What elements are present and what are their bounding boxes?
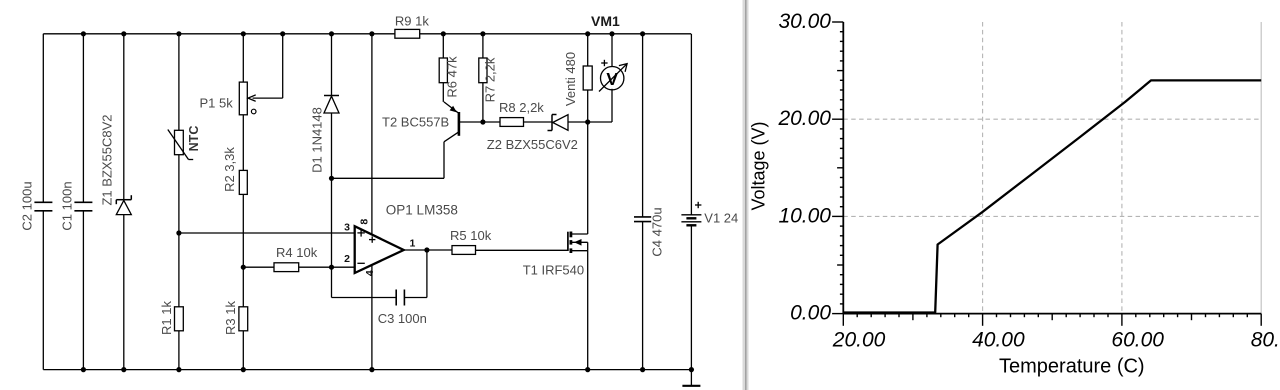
capacitor C4 (634, 217, 651, 222)
wire top rail right segment after R9 (420, 33, 691, 35)
label C4 470u (650, 207, 665, 256)
wire op-amp V+ supply pin 8 (371, 34, 373, 238)
wire bottom ground rail (43, 369, 691, 371)
wire T1 source to ground (587, 251, 589, 370)
label R1 1k (159, 301, 174, 335)
wire P1-R2-R3 vertical branch (242, 34, 244, 370)
junction op-amp supply top rail (369, 31, 374, 36)
op-amp minus input mark (357, 262, 364, 264)
wire top V+ rail left segment (43, 33, 395, 35)
svg-text:Voltage (V): Voltage (V) (749, 121, 769, 210)
wire base to R8 (483, 121, 500, 123)
potentiometer P1 body (239, 82, 247, 115)
svg-text:0.00: 0.00 (790, 302, 831, 325)
capacitor C2 (34, 202, 52, 211)
svg-text:V1 24: V1 24 (704, 211, 738, 226)
chart y ticks (832, 22, 843, 314)
wire R8 to Z2 (524, 121, 553, 123)
pin number 8 (358, 219, 370, 225)
thermistor NTC (168, 130, 193, 160)
svg-text:P1 5k: P1 5k (200, 96, 234, 111)
wire R6 branch (442, 34, 444, 102)
wire R5 to T1 gate (476, 249, 568, 251)
zener diode Z1 (cathode up) (116, 195, 131, 214)
svg-text:R2 3,3k: R2 3,3k (222, 147, 237, 192)
pin number 1 (410, 238, 416, 250)
svg-text:R9 1k: R9 1k (395, 14, 429, 29)
junction op-amp supply ground (369, 367, 374, 372)
svg-text:Temperature (C): Temperature (C) (999, 356, 1145, 378)
wire NTC-R1 vertical branch (178, 34, 180, 370)
svg-text:60.00: 60.00 (1111, 329, 1164, 352)
svg-text:3: 3 (344, 221, 350, 233)
label R6 47k (445, 56, 460, 98)
svg-text:80.00: 80.00 (1251, 329, 1280, 352)
diode D1 1N4148 (cathode up) (324, 96, 339, 114)
fan resistor Venti 480 (583, 66, 592, 90)
resistor R5 (452, 246, 476, 255)
svg-text:R6 47k: R6 47k (445, 56, 460, 98)
label R5 10k (450, 228, 492, 243)
plot curve voltage vs temperature (843, 80, 1261, 312)
voltmeter VM1 (599, 64, 627, 92)
junction T2 base with R7 (480, 119, 485, 124)
wire op-amp output pin 1 (404, 249, 452, 251)
label NTC (187, 126, 201, 152)
svg-text:R8 2,2k: R8 2,2k (499, 100, 544, 115)
resistor R7 (479, 58, 487, 83)
svg-text:40.00: 40.00 (972, 329, 1025, 352)
resistor R6 (439, 58, 447, 83)
label C3 100n (378, 311, 427, 326)
wire C1 vertical branch (82, 34, 84, 370)
potentiometer P1 open terminal circle (251, 109, 256, 114)
junction C1 top (81, 31, 86, 36)
label Z1 BZX55C8V2 (100, 114, 115, 205)
wire D1 vertical branch (331, 34, 333, 267)
svg-text:R7 2,2k: R7 2,2k (483, 57, 498, 102)
junction V1 ground rail (689, 367, 694, 372)
pin number 2 (344, 253, 350, 265)
label R8 2,2k (499, 100, 544, 115)
battery V1 24 (681, 215, 701, 226)
resistor R4 (274, 263, 299, 272)
svg-text:R3 1k: R3 1k (223, 301, 238, 335)
junction D1 line with T2 collector wire (329, 176, 334, 181)
op-amp OP1 triangle (355, 226, 404, 273)
voltmeter plus mark (601, 60, 607, 66)
label P1 5k (200, 96, 234, 111)
label R4 10k (276, 245, 318, 260)
junction C4 top rail (640, 31, 645, 36)
svg-text:T1 IRF540: T1 IRF540 (523, 263, 584, 278)
junction P1 top (241, 31, 246, 36)
wire V1 top lead (690, 34, 692, 215)
svg-text:2: 2 (344, 253, 350, 265)
junction R7 top rail (480, 31, 485, 36)
resistor R2 (239, 170, 247, 194)
svg-text:T2 BC557B: T2 BC557B (382, 115, 449, 130)
wire T2 base (459, 121, 483, 123)
zener diode Z2 (cathode left) (548, 115, 569, 131)
pin number 3 (344, 221, 350, 233)
junction T1 source ground rail (585, 367, 590, 372)
label OP1 LM358 (386, 203, 458, 218)
svg-text:1: 1 (410, 238, 416, 250)
junction voltmeter top rail (609, 31, 614, 36)
svg-text:R4 10k: R4 10k (276, 245, 318, 260)
wire V1 bottom lead (690, 225, 692, 369)
wire voltmeter bottom lead (611, 89, 613, 122)
svg-text:C1 100n: C1 100n (60, 181, 75, 230)
label R7 2,2k (483, 57, 498, 102)
op-amp plus input mark (357, 229, 364, 236)
potentiometer P1 wiper arrow (248, 95, 283, 101)
svg-text:C3 100n: C3 100n (378, 311, 427, 326)
svg-text:10.00: 10.00 (778, 204, 831, 227)
wire left vertical branch (C2) (42, 34, 44, 370)
junction R6 top rail (441, 31, 446, 36)
junction Z1 bottom (121, 367, 126, 372)
label R9 1k (395, 14, 429, 29)
junction R2-R3 to R4 (241, 265, 246, 270)
wire fan node to T1 drain (587, 122, 589, 234)
wire fan Venti branch (587, 34, 589, 122)
junction wiper top rail (280, 31, 285, 36)
wire voltmeter top lead (611, 34, 613, 67)
transistor T2 BC557B (444, 102, 459, 142)
wire P1 wiper to top rail (282, 34, 284, 98)
wire Z1 vertical branch (123, 34, 125, 370)
svg-text:Z1 BZX55C8V2: Z1 BZX55C8V2 (100, 114, 115, 205)
ground symbol (682, 370, 700, 386)
svg-text:D1 1N4148: D1 1N4148 (310, 107, 325, 173)
chart gridlines (843, 22, 1261, 314)
transistor T1 IRF540 (568, 232, 588, 254)
svg-text:4: 4 (364, 270, 376, 276)
chart y axis title (749, 121, 769, 210)
svg-text:R1 1k: R1 1k (159, 301, 174, 335)
junction Z1 top (121, 31, 126, 36)
label R3 1k (223, 301, 238, 335)
junction R3 bottom (241, 367, 246, 372)
label D1 1N4148 (310, 107, 325, 173)
junction NTC to pin3 wire (176, 230, 181, 235)
junction inverting input node (329, 265, 334, 270)
svg-text:8: 8 (358, 219, 370, 225)
chart x axis labels (832, 329, 1280, 352)
capacitor C3 (396, 290, 404, 306)
svg-text:Z2 BZX55C6V2: Z2 BZX55C6V2 (487, 137, 578, 152)
chart y axis labels (777, 10, 831, 325)
wire feedback down from inverting node (332, 267, 397, 297)
wire C4 branch (642, 34, 644, 370)
svg-text:20.00: 20.00 (832, 329, 886, 352)
op-amp supply plus mark (369, 236, 375, 242)
junction fan bottom node (585, 119, 590, 124)
label C1 100n (60, 181, 75, 230)
label Z2 BZX55C6V2 (487, 137, 578, 152)
label VM1 (591, 13, 620, 29)
wire C3 to output node (404, 250, 427, 298)
junction D1 top rail (329, 31, 334, 36)
junction output node (424, 247, 429, 252)
junction NTC top (176, 31, 181, 36)
chart x ticks (843, 314, 1261, 326)
wire non-inverting input (NTC node to pin 3) (179, 232, 355, 234)
junction NTC bottom (176, 367, 181, 372)
svg-text:VM1: VM1 (591, 13, 620, 29)
capacitor C1 (74, 202, 92, 211)
resistor R3 (239, 307, 248, 331)
label C2 100u (20, 181, 35, 230)
svg-text:NTC: NTC (187, 126, 201, 152)
wire Z2 to fan node (568, 121, 612, 123)
svg-text:OP1 LM358: OP1 LM358 (386, 203, 458, 218)
junction C4 ground rail (640, 367, 645, 372)
label T2 BC557B (382, 115, 449, 130)
label Venti 480 (563, 52, 578, 106)
label T1 IRF540 (523, 263, 584, 278)
svg-text:R5 10k: R5 10k (450, 228, 492, 243)
svg-text:30.00: 30.00 (778, 10, 831, 33)
svg-text:C2 100u: C2 100u (20, 181, 35, 230)
wire inverting input left segment (243, 266, 274, 268)
panel divider (743, 0, 749, 390)
resistor R9 (395, 29, 420, 38)
wire T2 collector to inverting node (332, 142, 445, 179)
label V1 24 (704, 211, 738, 226)
svg-text:C4 470u: C4 470u (650, 207, 665, 256)
label R2 3,3k (222, 147, 237, 192)
svg-text:20.00: 20.00 (777, 107, 831, 130)
junction Venti top rail (585, 31, 590, 36)
wire R7 branch (482, 34, 484, 122)
battery plus mark (695, 202, 701, 208)
chart x axis title (999, 356, 1145, 378)
resistor R1 (175, 307, 184, 331)
svg-text:Venti 480: Venti 480 (563, 52, 578, 106)
junction C1 bottom (81, 367, 86, 372)
wire op-amp V- supply pin 4 to ground (371, 265, 373, 370)
pin number 4 (364, 270, 376, 276)
wire R4 to pin 2 (299, 266, 355, 268)
chart axes (843, 22, 1261, 314)
resistor R8 (500, 118, 524, 127)
